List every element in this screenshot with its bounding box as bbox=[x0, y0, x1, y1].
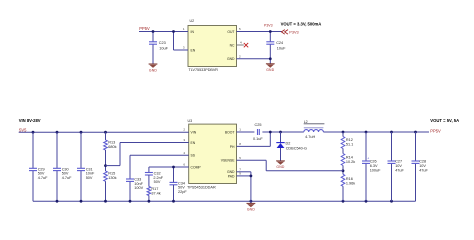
svg-text:50V: 50V bbox=[86, 176, 93, 180]
svg-text:47uF: 47uF bbox=[419, 168, 428, 172]
svg-text:0.1uF: 0.1uF bbox=[253, 137, 263, 141]
svg-text:U2: U2 bbox=[190, 19, 195, 23]
svg-text:EN: EN bbox=[191, 141, 196, 145]
svg-text:EN: EN bbox=[191, 48, 196, 52]
svg-text:2: 2 bbox=[183, 128, 185, 132]
svg-text:5: 5 bbox=[239, 156, 241, 160]
svg-text:R12: R12 bbox=[346, 138, 353, 142]
svg-text:VIN: VIN bbox=[191, 131, 197, 135]
svg-text:6: 6 bbox=[183, 163, 185, 167]
svg-text:37.4k: 37.4k bbox=[151, 192, 160, 196]
svg-text:47uF: 47uF bbox=[395, 168, 404, 172]
svg-text:PH: PH bbox=[230, 145, 235, 149]
svg-text:50V: 50V bbox=[154, 180, 161, 184]
svg-text:PP5V: PP5V bbox=[139, 26, 150, 31]
svg-text:R15: R15 bbox=[108, 172, 115, 176]
svg-text:PP5V: PP5V bbox=[430, 129, 441, 134]
svg-text:OUT: OUT bbox=[227, 30, 234, 34]
svg-text:680k: 680k bbox=[108, 145, 116, 149]
svg-text:VOUT = 5V, 5A: VOUT = 5V, 5A bbox=[430, 118, 459, 123]
svg-text:VSENSE: VSENSE bbox=[221, 159, 235, 163]
svg-text:C23: C23 bbox=[159, 41, 166, 45]
svg-text:R16: R16 bbox=[346, 177, 353, 181]
svg-text:10.2k: 10.2k bbox=[346, 160, 355, 164]
svg-text:GND: GND bbox=[227, 57, 235, 61]
svg-text:GND: GND bbox=[149, 68, 157, 72]
svg-text:+: + bbox=[367, 157, 369, 161]
svg-text:C25: C25 bbox=[255, 123, 262, 127]
svg-text:4: 4 bbox=[240, 41, 242, 45]
svg-text:L2: L2 bbox=[304, 120, 308, 124]
svg-text:4.7uF: 4.7uF bbox=[38, 176, 48, 180]
svg-text:130k: 130k bbox=[108, 176, 116, 180]
svg-text:100uF: 100uF bbox=[370, 168, 381, 172]
svg-text:C28: C28 bbox=[419, 160, 426, 164]
svg-text:4.7uH: 4.7uH bbox=[305, 135, 315, 139]
svg-text:1: 1 bbox=[239, 128, 241, 132]
svg-text:10uF: 10uF bbox=[277, 47, 286, 51]
svg-text:C27: C27 bbox=[395, 160, 402, 164]
svg-text:8: 8 bbox=[239, 142, 241, 146]
svg-text:GND: GND bbox=[247, 208, 255, 212]
svg-text:2.2nF: 2.2nF bbox=[153, 176, 163, 180]
svg-text:D2: D2 bbox=[286, 141, 291, 145]
svg-text:5: 5 bbox=[239, 27, 241, 31]
svg-text:PAD: PAD bbox=[228, 174, 235, 178]
svg-text:P3V3: P3V3 bbox=[289, 31, 298, 35]
svg-text:BOOT: BOOT bbox=[225, 130, 235, 134]
svg-text:2: 2 bbox=[239, 54, 241, 58]
svg-text:C24: C24 bbox=[276, 41, 283, 45]
svg-text:3: 3 bbox=[183, 46, 185, 50]
svg-text:U3: U3 bbox=[188, 119, 193, 123]
svg-text:4.7uF: 4.7uF bbox=[62, 176, 72, 180]
svg-text:100V: 100V bbox=[134, 186, 143, 190]
svg-text:VOUT = 3.3V, 500mA: VOUT = 3.3V, 500mA bbox=[281, 21, 322, 26]
svg-text:C32: C32 bbox=[154, 171, 161, 175]
svg-text:22pF: 22pF bbox=[178, 190, 187, 194]
svg-text:VIN 8V-28V: VIN 8V-28V bbox=[19, 118, 41, 123]
svg-text:51.1: 51.1 bbox=[346, 143, 353, 147]
svg-text:GND: GND bbox=[276, 165, 284, 169]
svg-text:SS: SS bbox=[191, 154, 196, 158]
svg-text:4: 4 bbox=[183, 151, 185, 155]
svg-text:10V: 10V bbox=[395, 164, 402, 168]
svg-text:R13: R13 bbox=[108, 140, 115, 144]
svg-text:CDBC540-G: CDBC540-G bbox=[286, 146, 307, 150]
svg-text:10uF: 10uF bbox=[159, 47, 168, 51]
svg-text:GND: GND bbox=[266, 68, 274, 72]
svg-text:1: 1 bbox=[183, 27, 185, 31]
svg-text:NC: NC bbox=[230, 43, 235, 47]
svg-text:3: 3 bbox=[183, 138, 185, 142]
svg-text:6.3V: 6.3V bbox=[370, 164, 378, 168]
svg-text:TLV75533PDBVR: TLV75533PDBVR bbox=[189, 68, 219, 72]
svg-text:10V: 10V bbox=[419, 164, 426, 168]
svg-text:R14: R14 bbox=[346, 155, 353, 159]
svg-text:C26: C26 bbox=[370, 160, 377, 164]
svg-text:IN: IN bbox=[191, 30, 195, 34]
svg-text:COMP: COMP bbox=[191, 165, 202, 169]
svg-text:TPS54531DDAR: TPS54531DDAR bbox=[187, 185, 216, 189]
svg-text:P3V3: P3V3 bbox=[264, 24, 273, 28]
svg-text:1.96k: 1.96k bbox=[346, 182, 355, 186]
